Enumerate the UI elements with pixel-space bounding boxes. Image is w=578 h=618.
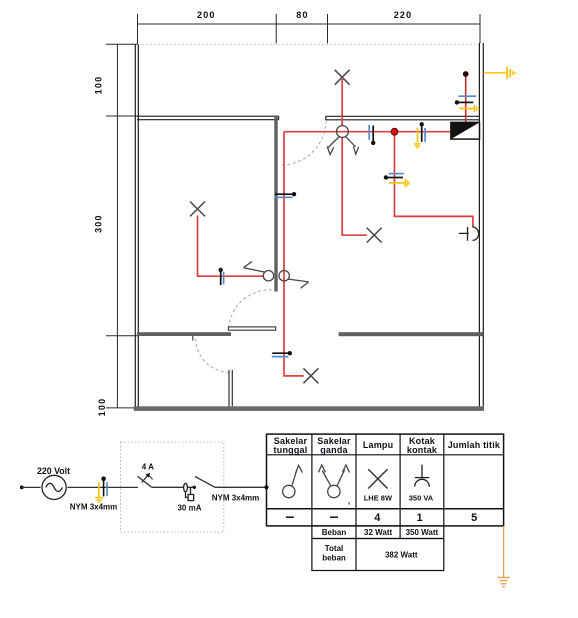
socket outlet K3 on junction drop	[384, 174, 409, 188]
panel boundary dashed box	[121, 442, 224, 532]
wall door jamb bottom	[229, 370, 232, 407]
socket outlet K2 on right wall	[455, 96, 479, 112]
svg-text:5: 5	[471, 512, 477, 524]
legend symbol: sakelar tunggal	[283, 465, 303, 497]
svg-text:beban: beban	[322, 553, 346, 562]
svg-text:NYM 3x4mm: NYM 3x4mm	[212, 493, 260, 502]
svg-text:382 Watt: 382 Watt	[385, 550, 418, 559]
lamp L3	[367, 228, 382, 243]
junction box J1 on main run	[369, 125, 375, 145]
RCD 30mA	[184, 483, 194, 500]
svg-text:30 mA: 30 mA	[177, 504, 201, 513]
junction box J4 on lamp L4 riser	[272, 351, 292, 357]
wall interior bottom-right	[339, 332, 484, 336]
svg-text:220: 220	[394, 10, 413, 20]
earth conductor below table	[497, 526, 510, 587]
wire: ceiling point to panel	[465, 76, 467, 123]
lamp L4	[303, 368, 318, 383]
svg-text:ganda: ganda	[320, 445, 348, 455]
ceiling point node top-right	[463, 71, 468, 76]
svg-text:100: 100	[97, 398, 107, 417]
switch S1 (sakelar ganda, top)	[327, 126, 359, 155]
node at table	[264, 485, 268, 489]
svg-text:1: 1	[416, 512, 422, 524]
wall interior top-left	[137, 116, 279, 120]
wall top dotted	[138, 44, 480, 46]
ground tap on supply	[95, 476, 107, 502]
wall right	[479, 43, 483, 407]
wall interior vertical	[274, 117, 277, 292]
source 220V (sine generator)	[42, 475, 66, 499]
svg-text:300: 300	[93, 214, 103, 233]
svg-text:Total: Total	[325, 544, 344, 553]
wall interior top-right	[326, 116, 480, 120]
breaker 4A	[138, 476, 153, 488]
switch S3 (right of wall)	[279, 271, 309, 289]
door leaf middle	[228, 327, 275, 330]
count row	[286, 516, 294, 518]
door arc bottom	[196, 339, 230, 373]
svg-text:220 Volt: 220 Volt	[37, 466, 70, 476]
wire source to breaker	[68, 486, 138, 488]
wire: drop from lamp L2 to switch S1	[341, 79, 343, 126]
svg-text:350 VA: 350 VA	[409, 494, 434, 503]
lamp L2	[335, 70, 350, 85]
svg-text:350 Watt: 350 Watt	[406, 528, 439, 537]
junction box J2 on left riser	[275, 192, 296, 197]
svg-text:32 Watt: 32 Watt	[364, 528, 392, 537]
svg-text:80: 80	[296, 10, 308, 20]
wire to source	[22, 486, 41, 488]
legend symbol: lampu	[368, 469, 387, 488]
svg-text:Jumlah titik: Jumlah titik	[448, 440, 501, 450]
wall left	[135, 45, 138, 408]
svg-text:4: 4	[374, 512, 381, 524]
RCD switch blade	[195, 476, 215, 487]
door stub bottom	[192, 336, 194, 341]
wire: main horizontal run to panel	[284, 131, 451, 133]
junction box J3 on lamp L1 wire	[219, 268, 224, 285]
wire: junction drop to wall socket	[395, 132, 473, 228]
wire: left riser down wall to lamp L4	[284, 132, 304, 376]
legend symbol: kotak kontak	[415, 465, 430, 487]
svg-text:tunggal: tunggal	[274, 445, 308, 455]
socket outlet K1 with ground on main run	[414, 122, 425, 148]
dimension line top	[138, 14, 481, 45]
dimension line left	[106, 44, 138, 408]
junction node (red dot)	[391, 128, 398, 135]
svg-text:LHE 8W: LHE 8W	[364, 494, 393, 503]
wall bottom	[134, 406, 484, 411]
distribution panel	[451, 122, 480, 139]
door arc top	[281, 121, 326, 166]
lamp L1	[190, 202, 205, 217]
door arc middle	[229, 290, 272, 329]
wire: switch S1 to lamp L3	[342, 137, 367, 235]
ground electrode right of wall	[484, 67, 516, 79]
svg-text:kontak: kontak	[407, 445, 438, 455]
svg-text:NYM 3x4mm: NYM 3x4mm	[70, 503, 118, 512]
wire: lamp L1 to switch S2	[198, 216, 264, 277]
svg-text:200: 200	[197, 10, 216, 20]
supply terminal node	[20, 486, 24, 490]
wire breaker to RCD	[152, 486, 194, 488]
svg-text:100: 100	[94, 76, 104, 95]
svg-text:Lampu: Lampu	[363, 440, 394, 450]
wire RCD to legend table	[215, 486, 267, 488]
switch S2 (left of wall)	[244, 261, 274, 281]
svg-text:4 A: 4 A	[142, 462, 154, 471]
table borders	[267, 434, 504, 570]
wall interior bottom-left	[137, 332, 231, 336]
wall socket (kotak kontak) right wall	[459, 227, 479, 241]
svg-text:Beban: Beban	[322, 528, 347, 537]
legend symbol: sakelar ganda	[319, 465, 350, 505]
